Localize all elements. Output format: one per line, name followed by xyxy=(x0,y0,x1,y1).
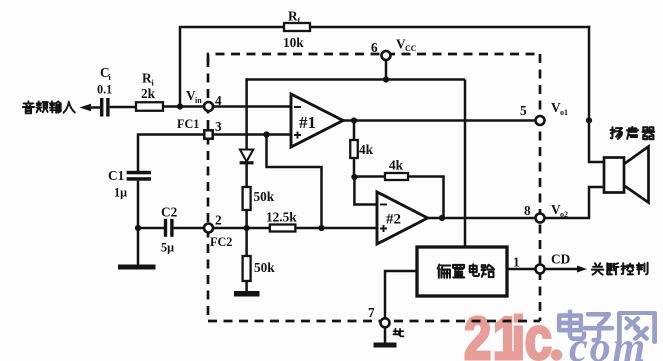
pin 6 Vcc xyxy=(371,37,417,61)
resistor 4k vertical xyxy=(350,121,373,178)
wire top feedback left segment xyxy=(179,26,284,29)
svg-text:3: 3 xyxy=(215,119,222,134)
svg-text:#2: #2 xyxy=(386,212,401,228)
svg-text:FC1: FC1 xyxy=(177,117,199,131)
wire junction to C2 xyxy=(138,227,164,230)
svg-text:R: R xyxy=(142,71,152,86)
pin 7 ground xyxy=(368,305,390,327)
watermark dot xyxy=(551,349,562,360)
svg-text:o1: o1 xyxy=(560,108,568,117)
svg-text:f: f xyxy=(298,17,301,26)
wire bias box left to pin7 xyxy=(385,271,417,318)
pin 2 FC2 xyxy=(204,213,232,250)
ground under pin7 xyxy=(374,343,397,348)
wire C2 to pin2 xyxy=(174,227,205,230)
wire pin8 right up to speaker xyxy=(545,187,605,218)
svg-text:8: 8 xyxy=(524,203,531,218)
op-amp U2 xyxy=(377,192,428,244)
wire FC1 node down-right to FC2 row xyxy=(267,135,322,229)
svg-text:6: 6 xyxy=(371,40,378,55)
resistor 12.5k xyxy=(266,210,297,232)
wire node to opamp2 plus xyxy=(322,227,378,230)
wire opamp2 out to pin8 xyxy=(428,217,536,220)
label 地 (ground) xyxy=(393,329,403,337)
wire node down to opamp2 minus xyxy=(354,177,377,205)
watermark com xyxy=(569,325,647,361)
wire Vo1 node down to speaker xyxy=(589,121,604,163)
ground under C1 xyxy=(118,265,156,270)
svg-text:5: 5 xyxy=(520,103,527,118)
svg-text:4k: 4k xyxy=(389,158,404,173)
input arrow xyxy=(80,104,101,111)
pin 5 Vo1 xyxy=(520,100,568,125)
capacitor Ci xyxy=(97,65,112,117)
capacitor C2 5u xyxy=(161,204,178,254)
capacitor C1 1u xyxy=(108,168,151,200)
svg-text:com: com xyxy=(569,325,647,361)
wire pin3 to opamp1 plus input xyxy=(213,133,291,136)
wire 4k to opamp2 output xyxy=(408,177,444,219)
pin 8 Vo2 xyxy=(524,202,568,223)
node under pin6 xyxy=(383,60,389,83)
wire Ci to Ri xyxy=(110,106,136,109)
svg-text:in: in xyxy=(195,96,202,105)
svg-text:12.5k: 12.5k xyxy=(266,210,297,225)
svg-text:5μ: 5μ xyxy=(161,241,174,255)
wire pin4 to opamp1 xyxy=(213,105,291,108)
node opamp1 output 4k tap xyxy=(351,117,357,123)
node 4k bottom xyxy=(351,174,357,180)
svg-text:4k: 4k xyxy=(359,142,374,157)
svg-text:FC2: FC2 xyxy=(210,235,232,249)
svg-text:4: 4 xyxy=(215,93,222,108)
IC dashed box bottom edge xyxy=(208,320,540,323)
svg-text:#1: #1 xyxy=(299,113,316,132)
IC dashed box right edge xyxy=(539,54,542,321)
resistor Rf 10k xyxy=(283,9,310,51)
wire opamp1 out to pin5 xyxy=(343,119,536,122)
svg-text:C2: C2 xyxy=(161,204,178,219)
svg-text:R: R xyxy=(288,9,298,24)
wire 50k to ground xyxy=(245,281,248,292)
label 关断控制 (shutdown control) xyxy=(592,263,648,275)
node 12.5k right xyxy=(318,225,324,231)
svg-text:2: 2 xyxy=(215,213,222,228)
wire 50k to FC2 node xyxy=(245,210,248,228)
wire Ri to pin4 xyxy=(163,105,204,108)
op-amp U1 xyxy=(291,94,343,147)
IC dashed box left edge xyxy=(207,58,210,321)
svg-text:2k: 2k xyxy=(141,86,156,101)
svg-text:7: 7 xyxy=(368,305,375,320)
wire pin2 to 12.5k xyxy=(213,227,270,230)
svg-text:C1: C1 xyxy=(108,168,124,183)
wire pin1 to shutdown arrow xyxy=(545,266,588,273)
wire pin3 left to C1 xyxy=(138,133,204,171)
wire C1 down to gnd junction xyxy=(137,181,140,265)
wire diode to 50k xyxy=(245,164,248,187)
resistor 50k lower xyxy=(243,228,276,281)
pin 4 Vin xyxy=(186,88,222,111)
node opamp2 output xyxy=(439,215,445,221)
IC dashed box top edge xyxy=(208,54,540,62)
wire Vcc rail xyxy=(245,80,465,248)
speaker 扬声器 xyxy=(604,147,649,203)
node FC2 divider tap xyxy=(244,225,250,231)
resistor Ri 2k xyxy=(136,71,163,111)
resistor 50k upper xyxy=(243,187,275,210)
node C1/C2 junction xyxy=(135,225,141,231)
label 音频输入 (audio input) xyxy=(23,101,75,113)
diode (internal) xyxy=(240,150,254,165)
svg-text:0.1: 0.1 xyxy=(97,83,112,97)
svg-text:50k: 50k xyxy=(254,189,275,204)
wire Vcc rail corner down (bias chain) xyxy=(245,78,248,149)
node Vo1 speaker junction xyxy=(586,117,592,123)
wire node to 4k horizontal xyxy=(354,175,385,178)
bias circuit box 偏置电路 xyxy=(417,247,507,296)
node FC1 junction xyxy=(263,131,269,137)
wire feedback vertical left xyxy=(179,27,182,107)
svg-text:21ic: 21ic xyxy=(464,304,552,361)
wire bias box right to pin1 xyxy=(507,268,536,271)
resistor 4k horizontal xyxy=(385,158,408,181)
svg-text:1μ: 1μ xyxy=(114,186,127,200)
wire top feedback right segment xyxy=(310,26,590,29)
node Vin feedback tap xyxy=(177,103,183,109)
svg-text:50k: 50k xyxy=(254,260,275,275)
svg-text:1: 1 xyxy=(513,255,520,270)
svg-text:CD: CD xyxy=(551,252,570,267)
wire 12.5k to node xyxy=(295,227,321,230)
svg-text:CC: CC xyxy=(405,44,417,53)
wire right vertical to Vo1 xyxy=(588,26,591,121)
label 扬声器 (speaker) xyxy=(611,127,655,139)
watermark 21ic xyxy=(464,304,552,361)
watermark 电子网 xyxy=(559,312,654,342)
svg-text:10k: 10k xyxy=(283,35,304,50)
ground under 50k xyxy=(234,291,260,297)
pin 3 FC1 (square) xyxy=(177,117,222,139)
pin 1 CD xyxy=(513,252,570,274)
wire pin7 to ground xyxy=(384,327,387,343)
